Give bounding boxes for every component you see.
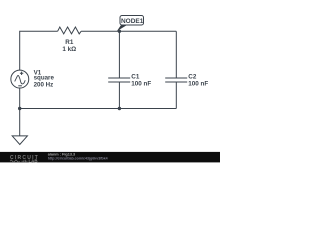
svg-text:C2: C2 [188, 73, 197, 80]
svg-text:100 nF: 100 nF [131, 81, 151, 88]
svg-text:R1: R1 [65, 39, 74, 46]
svg-text:C1: C1 [131, 73, 140, 80]
svg-text:200 Hz: 200 Hz [34, 81, 54, 88]
svg-text:1 kΩ: 1 kΩ [62, 46, 76, 53]
svg-text:LAB: LAB [29, 159, 38, 164]
svg-text:http://circuitlab.com/c43jg6kv: http://circuitlab.com/c43jg6kv3fbk4 [48, 157, 108, 161]
svg-text:100 nF: 100 nF [188, 81, 208, 88]
svg-text:NODE1: NODE1 [121, 18, 144, 25]
